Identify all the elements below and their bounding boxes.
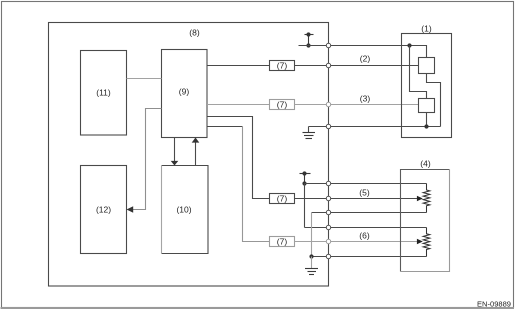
wire (2) resistor #1 to switch box (1) — [295, 65, 419, 67]
wire box9 to resistor (7) #1 — [207, 65, 270, 67]
wire S1 bottom loop to ground wire — [427, 74, 441, 127]
resistor (7) #3 — [270, 194, 295, 204]
svg-text:(12): (12) — [96, 205, 111, 215]
junction dot in box1 — [407, 43, 411, 47]
connector pin A — [326, 43, 330, 47]
connector pin 5 — [326, 239, 330, 243]
svg-text:(7): (7) — [277, 194, 288, 204]
arrowhead into box10 — [171, 161, 179, 166]
switch element S2 — [419, 99, 435, 113]
wire (3) resistor #2 to switch box (1) — [295, 104, 419, 106]
wire box10 up to box9 — [195, 142, 197, 166]
power tap bar (top) — [305, 34, 314, 36]
connector pin 6 — [326, 254, 330, 258]
svg-text:(4): (4) — [420, 159, 431, 169]
svg-text:(5): (5) — [359, 188, 370, 198]
wire box9 down to box10 — [174, 138, 176, 163]
box (12) — [81, 166, 127, 254]
arrowhead into box12 — [127, 206, 134, 213]
wire box11 to box9 — [127, 78, 162, 80]
wire to pot2 top — [305, 227, 427, 229]
wire box9 to resistor (7) #4 — [207, 126, 243, 128]
junction dot — [306, 32, 310, 36]
svg-text:(7): (7) — [277, 237, 288, 247]
box (1) switch assembly — [402, 34, 452, 138]
wire box9 to resistor (7) #2 — [207, 104, 270, 106]
box (10) — [162, 166, 209, 254]
connector pin C — [326, 102, 330, 106]
wire pot1 bottom — [312, 212, 427, 214]
svg-text:(8): (8) — [189, 28, 200, 38]
wire (6) resistor #4 to pot2 wiper — [295, 241, 418, 243]
wire pot2 bottom — [312, 256, 427, 258]
wire (5) resistor #3 to pot1 wiper — [295, 198, 418, 200]
svg-text:(6): (6) — [359, 231, 370, 241]
box (8) control module outline — [49, 23, 329, 287]
junction dot — [306, 43, 310, 47]
svg-text:(1): (1) — [421, 24, 432, 34]
svg-text:(2): (2) — [360, 54, 371, 64]
resistor (7) #1 — [270, 61, 295, 71]
power tap bar (bottom) — [300, 173, 311, 175]
svg-text:(3): (3) — [360, 94, 371, 104]
junction dot — [302, 181, 306, 185]
junction dot on ground wire — [424, 124, 428, 128]
junction dot — [302, 171, 306, 175]
wire pot1 bottom down to ground node — [311, 213, 313, 257]
connector pin 2 — [326, 196, 330, 200]
box (9) — [162, 50, 208, 138]
wire power tap down to pot2 top — [304, 184, 306, 228]
wire S2 bottom to ground wire — [426, 113, 428, 127]
svg-text:(9): (9) — [179, 87, 190, 97]
ground symbol #2 — [305, 268, 318, 270]
box (11) — [81, 51, 127, 136]
arrowhead into box9 — [192, 138, 200, 143]
connector pin 1 — [326, 181, 330, 185]
connector pin 3 — [326, 210, 330, 214]
svg-text:(10): (10) — [176, 205, 191, 215]
ground symbol #1 — [303, 132, 316, 134]
potentiometer P1 — [423, 184, 430, 213]
svg-text:(7): (7) — [277, 100, 288, 110]
connector pin 4 — [326, 225, 330, 229]
svg-text:EN-09889: EN-09889 — [477, 300, 511, 309]
svg-text:(7): (7) — [277, 61, 288, 71]
wire dot to switch S2 top — [410, 46, 427, 99]
wire box9 to resistor (7) #3 — [207, 117, 270, 199]
resistor (7) #2 — [270, 100, 295, 110]
switch element S1 — [419, 58, 435, 74]
junction dot ground node — [309, 254, 313, 258]
connector pin B — [326, 63, 330, 67]
wire box9 to box12 — [132, 109, 162, 210]
wire to pot1 top — [305, 183, 427, 185]
ground wire (top) — [309, 126, 441, 128]
svg-text:(11): (11) — [96, 88, 111, 98]
box (4) sensor assembly — [401, 170, 450, 272]
connector pin D — [326, 124, 330, 128]
ground stem — [311, 257, 313, 269]
pot2 wiper arrowhead — [417, 239, 423, 245]
wire to switch box (1) supply — [299, 46, 427, 58]
resistor (7) #4 — [270, 237, 295, 247]
potentiometer P2 — [423, 228, 430, 257]
pot1 wiper arrowhead — [417, 196, 423, 202]
